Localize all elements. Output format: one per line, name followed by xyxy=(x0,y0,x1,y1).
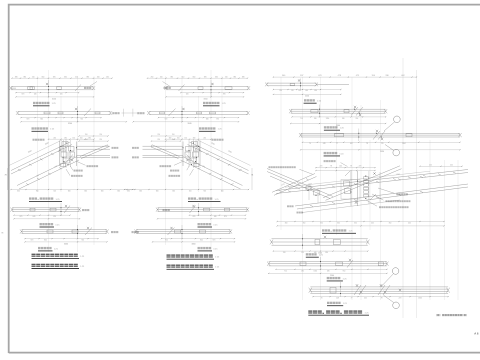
label 由戗侧面 1:25 xyxy=(306,253,324,257)
svg-text:700: 700 xyxy=(157,134,160,136)
svg-text:870: 870 xyxy=(213,240,216,242)
svg-text:1364: 1364 xyxy=(308,183,312,185)
beam R6 body xyxy=(269,262,387,266)
beam M4 mortises xyxy=(225,208,230,211)
beam M1 hatch xyxy=(179,85,185,92)
svg-text:690: 690 xyxy=(53,76,56,78)
truss R4 right leaders xyxy=(378,188,395,193)
label 枕头枋 M1 xyxy=(164,87,171,89)
svg-text:840: 840 xyxy=(200,240,203,242)
beam M1 centre joint xyxy=(210,80,213,97)
truss L3 diagonal dimension line xyxy=(9,140,62,166)
beam R7 mortises xyxy=(330,287,336,293)
svg-text:500: 500 xyxy=(189,191,192,193)
beam M4 end markers xyxy=(246,208,249,212)
truss M3 diagonal dimension xyxy=(198,140,251,166)
truss M3 leader 枕头枋分位 xyxy=(174,162,183,166)
beam R2 end markers xyxy=(289,109,292,113)
beam L2 body xyxy=(18,112,111,115)
svg-text:620: 620 xyxy=(53,216,56,218)
leader to label 枕头枋 xyxy=(90,82,97,87)
svg-text:350: 350 xyxy=(389,223,392,225)
dimension row xyxy=(291,123,386,125)
beam R1 joint xyxy=(298,79,301,91)
dimension row xyxy=(133,121,238,123)
dimension row xyxy=(420,165,462,167)
label 枕头枋分位 R4 xyxy=(396,193,408,195)
beam L1 centre joint xyxy=(46,80,49,97)
svg-text:120: 120 xyxy=(291,90,294,92)
dimension row xyxy=(316,167,375,169)
dimension row xyxy=(166,138,212,140)
dimension row xyxy=(181,92,244,94)
svg-text:660: 660 xyxy=(101,191,104,193)
truss R4 left labels xyxy=(287,205,294,207)
svg-text:240: 240 xyxy=(53,137,56,139)
svg-text:850: 850 xyxy=(314,90,317,92)
dimension row xyxy=(16,96,94,98)
svg-text:120: 120 xyxy=(301,252,304,254)
label 枕头枋 L5 xyxy=(111,231,118,233)
grid line far right x403 xyxy=(402,58,404,318)
svg-text:870: 870 xyxy=(22,94,25,96)
label 枕头枋 M2 xyxy=(137,112,144,114)
svg-text:254: 254 xyxy=(157,139,160,141)
truss L3 rafter band upper xyxy=(11,142,70,171)
svg-text:78: 78 xyxy=(350,166,352,168)
svg-text:2250: 2250 xyxy=(305,96,309,98)
truss R4 long ascending band 1 xyxy=(276,170,468,191)
label 下层一云头枋 二 1:25 xyxy=(199,127,223,131)
svg-text:660: 660 xyxy=(117,191,120,193)
label 下层一、下层二立面 二 1:25 xyxy=(188,197,221,201)
truss L3 leader 榫卯分位 xyxy=(70,166,73,171)
dimension row xyxy=(159,117,239,119)
title 角梁一、角梁二、由戗大样 xyxy=(308,310,369,315)
label 儿子枋与小枕头角梁交于分位 xyxy=(379,206,409,208)
svg-text:640: 640 xyxy=(34,94,37,96)
beam R1 end markers xyxy=(265,83,268,87)
svg-text:140: 140 xyxy=(298,90,301,92)
leader to label 枕头枋 M1 xyxy=(163,82,170,87)
beam R7 joints xyxy=(340,282,401,297)
dimension row xyxy=(276,268,387,270)
label 下层二侧面 1:25 xyxy=(40,223,61,227)
svg-text:1350: 1350 xyxy=(313,270,317,272)
svg-text:380: 380 xyxy=(23,76,26,78)
svg-text:660: 660 xyxy=(64,76,67,78)
truss M3 rafter band upper xyxy=(190,142,249,171)
beam R7 end markers xyxy=(309,288,312,293)
dimension row xyxy=(49,138,95,140)
svg-text:240: 240 xyxy=(203,137,206,139)
svg-text:150: 150 xyxy=(72,137,75,139)
svg-text:402: 402 xyxy=(450,164,453,166)
svg-text:3060: 3060 xyxy=(192,243,196,245)
label 由戗平面 1:20 xyxy=(304,99,322,103)
dimension row xyxy=(16,92,79,94)
beam M1 mortises xyxy=(225,87,232,89)
svg-text:402: 402 xyxy=(408,223,411,225)
svg-text:870: 870 xyxy=(224,216,227,218)
beam R3 joints xyxy=(358,129,385,142)
label 下层一侧面 二 1:25 xyxy=(198,247,219,251)
svg-text:660: 660 xyxy=(215,76,218,78)
beam M2 centre joint xyxy=(181,106,184,122)
svg-text:3150: 3150 xyxy=(52,98,56,100)
label 枕头枋 M4 xyxy=(163,209,170,211)
svg-text:660: 660 xyxy=(42,76,45,78)
dimension row xyxy=(153,241,235,243)
dimension row xyxy=(148,77,248,79)
beam R2 mortises xyxy=(311,110,318,113)
beam L2 end markers xyxy=(16,111,19,115)
beam L1 end markers xyxy=(9,86,12,90)
dimension row xyxy=(21,121,126,123)
beam R6 end markers xyxy=(267,262,270,266)
svg-text:660: 660 xyxy=(193,76,196,78)
beam L4 body xyxy=(12,208,80,212)
label 下层二侧面 二 1:25 xyxy=(198,223,219,227)
label 罗汉枋分位 L3 xyxy=(33,139,45,141)
label 角梁二平面 1:20 xyxy=(324,126,345,130)
svg-text:254: 254 xyxy=(172,139,175,141)
svg-text:310: 310 xyxy=(283,252,286,254)
svg-text:510: 510 xyxy=(75,76,78,78)
label 枕头枋 truss lower xyxy=(112,156,119,158)
svg-text:248: 248 xyxy=(323,143,326,145)
label 角梁二侧面 1:25 xyxy=(327,277,348,281)
connector between L2 and M2 xyxy=(122,112,138,114)
svg-text:700: 700 xyxy=(99,134,102,136)
beam R7 body xyxy=(310,287,448,294)
label 罗汉枋分位 M3 xyxy=(212,139,224,141)
beam M4 joint xyxy=(190,203,200,216)
beam M2 end markers xyxy=(246,111,249,115)
svg-text:710: 710 xyxy=(300,118,303,120)
svg-text:70: 70 xyxy=(321,298,323,300)
beam L1 mortises xyxy=(28,87,35,89)
svg-text:920: 920 xyxy=(81,240,84,242)
truss L3 leader 儿子枋分位 xyxy=(66,169,70,176)
svg-text:3060: 3060 xyxy=(64,243,68,245)
beam M4 body xyxy=(158,208,248,212)
svg-text:3150: 3150 xyxy=(204,98,208,100)
beam R2 joints xyxy=(319,105,363,118)
leader from 罗汉枋分位 xyxy=(341,163,348,167)
svg-text:78: 78 xyxy=(330,166,332,168)
cluster verticals xyxy=(350,170,352,206)
svg-text:180: 180 xyxy=(193,137,196,139)
svg-text:380: 380 xyxy=(233,76,236,78)
detail bubble circle R6 xyxy=(392,268,399,275)
beam M5 end markers xyxy=(229,229,232,233)
svg-text:150: 150 xyxy=(177,137,180,139)
beam M1 body xyxy=(166,86,249,89)
svg-text:254: 254 xyxy=(85,139,88,141)
truss L3 joint cluster xyxy=(58,139,77,168)
truss M3 group xyxy=(124,134,254,193)
beam L4 end markers xyxy=(10,208,13,212)
beam L1 hatch xyxy=(75,85,81,92)
svg-text:1364: 1364 xyxy=(402,143,406,145)
label 儿子枋与小枋头枋相利分位 xyxy=(269,166,296,168)
label 枕头枋 L4 xyxy=(82,209,89,211)
dimension row xyxy=(152,135,181,137)
truss M3 left purlin lines xyxy=(143,145,184,147)
label 罗汉枋分位 R4 xyxy=(324,160,336,162)
svg-text:660: 660 xyxy=(139,191,142,193)
svg-text:440: 440 xyxy=(305,90,308,92)
dimension row xyxy=(125,189,249,191)
svg-text:620: 620 xyxy=(60,94,63,96)
dimension row xyxy=(303,141,461,143)
svg-text:260: 260 xyxy=(151,76,154,78)
svg-text:270: 270 xyxy=(399,298,402,300)
svg-text:840: 840 xyxy=(40,119,43,121)
truss M3 leader 榫卯分位 xyxy=(187,166,190,171)
dimension row xyxy=(21,117,101,119)
dimension row xyxy=(11,189,135,191)
svg-text:380: 380 xyxy=(170,76,173,78)
truss L3 group xyxy=(5,134,136,193)
svg-text:300: 300 xyxy=(337,223,340,225)
cluster outline box xyxy=(341,180,360,200)
svg-text:870: 870 xyxy=(223,94,226,96)
svg-text:180: 180 xyxy=(342,118,345,120)
dimension row xyxy=(79,140,108,142)
dimension row xyxy=(12,77,112,79)
construction grid lines middle column xyxy=(166,70,223,252)
svg-text:180: 180 xyxy=(88,137,91,139)
title 下层一与柱头枋相利一 xyxy=(32,264,86,269)
label 枕头枋 L2 xyxy=(112,112,119,114)
dimension row xyxy=(166,96,244,98)
label 下层二云头枋 二 1:25 xyxy=(203,102,227,106)
beam R2 body xyxy=(291,109,386,113)
svg-text:70: 70 xyxy=(309,143,311,145)
leader to bubble R3 xyxy=(385,145,394,151)
beam L5 body xyxy=(22,230,108,234)
beam R5 body xyxy=(272,239,368,245)
beam R3 end markers xyxy=(299,133,302,137)
svg-text:180: 180 xyxy=(314,118,317,120)
beam L2 mortises xyxy=(44,112,50,114)
svg-text:850: 850 xyxy=(325,252,328,254)
truss M3 joint cluster xyxy=(182,139,201,168)
truss L3 rafter hatches xyxy=(18,169,21,171)
svg-text:920: 920 xyxy=(165,240,168,242)
svg-text:920: 920 xyxy=(80,119,83,121)
title 下层二与柱头枋相利一 xyxy=(32,254,86,259)
svg-text:2930: 2930 xyxy=(380,151,384,153)
dimension row xyxy=(301,149,460,151)
truss R4 steep ascending rafter band xyxy=(323,166,400,198)
dimension row xyxy=(273,250,367,252)
svg-text:600: 600 xyxy=(17,191,20,193)
grid line far right x416 xyxy=(416,70,418,318)
svg-text:270: 270 xyxy=(381,143,384,145)
svg-text:700: 700 xyxy=(172,134,175,136)
svg-text:840: 840 xyxy=(44,240,47,242)
detail bubble circle R3 xyxy=(393,149,400,156)
beam R5 end markers xyxy=(270,240,273,245)
truss M3 rafter hatches xyxy=(239,169,242,171)
svg-text:300: 300 xyxy=(285,223,288,225)
beam L5 end markers xyxy=(20,229,23,233)
truss R4 lower band extra line xyxy=(302,200,400,213)
svg-text:1350: 1350 xyxy=(326,118,330,120)
truss R4 descending rafter band xyxy=(267,169,333,197)
beam M5 mortises xyxy=(200,230,206,233)
beam R6 joint xyxy=(320,257,353,270)
construction grid lines left column xyxy=(38,70,95,252)
svg-text:510: 510 xyxy=(225,76,228,78)
dimension row xyxy=(190,214,246,216)
svg-text:950: 950 xyxy=(343,270,346,272)
dimension row xyxy=(25,241,107,243)
detail bubble circle R7 xyxy=(393,302,400,309)
label 下层二云头枋 1:25 xyxy=(33,102,57,106)
beam M5 body xyxy=(136,230,231,234)
svg-text:690: 690 xyxy=(204,76,207,78)
svg-text:78: 78 xyxy=(366,143,368,145)
svg-text:270: 270 xyxy=(320,166,323,168)
dimension row xyxy=(14,218,80,220)
svg-text:402: 402 xyxy=(371,223,374,225)
dimension row xyxy=(158,218,246,220)
svg-text:350: 350 xyxy=(354,223,357,225)
svg-text:600: 600 xyxy=(221,191,224,193)
dimension row xyxy=(292,116,386,118)
svg-text:180: 180 xyxy=(301,270,304,272)
svg-text:A 6: A 6 xyxy=(474,331,479,335)
beam L1 body xyxy=(11,86,94,89)
svg-text:380: 380 xyxy=(15,76,18,78)
svg-text:310: 310 xyxy=(279,90,282,92)
label 枕头枋 L1 xyxy=(84,87,91,89)
cluster ladder rects xyxy=(364,177,368,180)
truss R4 diagonal dim line xyxy=(285,171,430,187)
truss M3 upper-left arm rafter xyxy=(152,145,180,157)
label 枕头枋 M3 lower xyxy=(132,156,139,158)
label 角梁一侧面 1:25 xyxy=(327,302,348,306)
svg-text:402: 402 xyxy=(339,166,342,168)
leader to bubble R6 xyxy=(381,274,393,287)
beam R6 mortises xyxy=(300,262,306,266)
dimension row xyxy=(273,76,416,78)
label 角梁一、角梁二立面 1:25 xyxy=(322,229,356,233)
svg-text:500: 500 xyxy=(53,191,56,193)
svg-text:350: 350 xyxy=(320,223,323,225)
svg-text:660: 660 xyxy=(156,191,159,193)
svg-text:254: 254 xyxy=(99,139,102,141)
truss R4 mini cluster left xyxy=(306,184,320,203)
svg-text:150: 150 xyxy=(184,137,187,139)
leader to bubble R7 xyxy=(384,295,394,302)
beam R3 mortises xyxy=(334,134,343,137)
svg-text:77: 77 xyxy=(336,143,338,145)
svg-text:402: 402 xyxy=(364,298,367,300)
svg-text:260: 260 xyxy=(160,76,163,78)
svg-text:660: 660 xyxy=(172,191,175,193)
title 下层一与柱头枋相利二 xyxy=(167,265,221,270)
svg-text:350: 350 xyxy=(303,223,306,225)
svg-text:840: 840 xyxy=(206,119,209,121)
label 下层一侧面 1:25 xyxy=(38,247,59,251)
sheet label (七) 角梁柱头龙骨大样(二) xyxy=(436,314,467,316)
beam M5 joint xyxy=(168,225,183,238)
svg-text:620: 620 xyxy=(186,94,189,96)
svg-text:150: 150 xyxy=(80,137,83,139)
truss R4 band hatches xyxy=(288,191,291,192)
svg-text:640: 640 xyxy=(33,216,36,218)
beam L5 mortises xyxy=(47,230,53,233)
truss M3 rafter band lower xyxy=(183,157,243,186)
leader to bubble R2 xyxy=(384,122,395,131)
dimension row xyxy=(313,296,448,298)
svg-text:2560: 2560 xyxy=(330,275,334,277)
svg-text:1364: 1364 xyxy=(418,298,422,300)
truss L3 upper-right arm rafter xyxy=(80,145,108,157)
beam L2 hatch xyxy=(84,109,91,117)
truss R4 group xyxy=(267,160,468,226)
svg-text:180: 180 xyxy=(64,137,67,139)
label 角梁一平面 1:20 xyxy=(324,152,345,156)
truss L3 rafter band lower xyxy=(17,157,77,186)
truss R4 joint cluster xyxy=(341,170,380,206)
truss L3 right purlin lines xyxy=(77,145,111,147)
svg-text:660: 660 xyxy=(127,191,130,193)
dimension row xyxy=(79,135,108,137)
label 枕头枋 truss upper xyxy=(112,147,119,149)
svg-text:950: 950 xyxy=(356,118,359,120)
truss L3 leader 枕头枋分位 xyxy=(77,162,86,166)
svg-text:402: 402 xyxy=(429,164,432,166)
svg-text:270: 270 xyxy=(359,166,362,168)
truss M3 leader 儿子枋分位 xyxy=(190,169,194,176)
dimension row xyxy=(162,238,235,240)
beam R5 joint xyxy=(302,234,326,249)
dimension row xyxy=(273,93,340,95)
detail bubble circle R2 xyxy=(394,116,401,123)
beam M2 body xyxy=(149,112,248,115)
svg-text:640: 640 xyxy=(214,216,217,218)
svg-text:870: 870 xyxy=(20,216,23,218)
svg-text:920: 920 xyxy=(165,119,168,121)
dimension row xyxy=(152,140,181,142)
svg-text:3240: 3240 xyxy=(188,123,192,125)
beam M1 end markers xyxy=(247,86,250,90)
svg-text:180: 180 xyxy=(327,270,330,272)
svg-text:3240: 3240 xyxy=(68,123,72,125)
dimension row xyxy=(316,170,375,172)
svg-text:870: 870 xyxy=(27,119,30,121)
dimension row xyxy=(25,238,98,240)
dimension row xyxy=(269,272,387,274)
dimension row xyxy=(273,89,340,91)
beam L5 joint xyxy=(77,225,92,238)
svg-text:700: 700 xyxy=(85,134,88,136)
svg-text:260: 260 xyxy=(97,76,100,78)
dimension row xyxy=(277,225,444,227)
svg-text:900: 900 xyxy=(203,191,206,193)
svg-text:248: 248 xyxy=(336,298,339,300)
beam L2 centre joint xyxy=(75,106,78,122)
beam R1 body xyxy=(267,83,349,86)
truss R4 steep rafter left (jiaoliang-2) xyxy=(272,174,315,193)
svg-text:510: 510 xyxy=(32,76,35,78)
